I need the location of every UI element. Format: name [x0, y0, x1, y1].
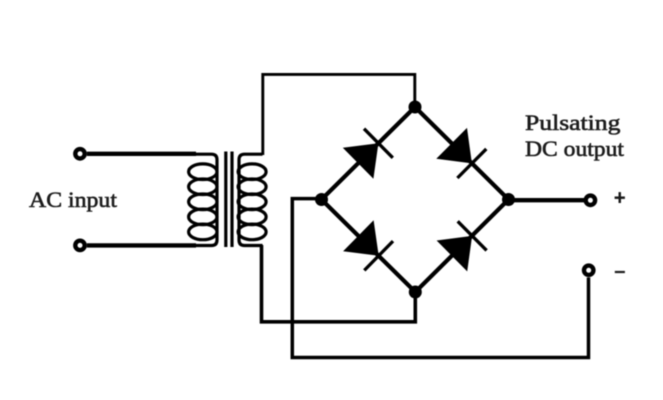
wire + output	[509, 198, 585, 202]
wire - return (left node around bottom to - terminal)	[292, 199, 588, 358]
node left	[315, 193, 328, 206]
diode D4 (bottom node to right node)	[437, 221, 487, 271]
terminal AC bottom	[75, 241, 84, 250]
node right	[502, 193, 515, 206]
wire secondary top to bridge top node	[263, 74, 415, 155]
AC input label	[29, 187, 117, 214]
terminal AC top	[75, 149, 84, 158]
transformer T1 primary winding	[189, 154, 217, 245]
wire AC top lead	[87, 152, 196, 156]
wire bridge side top-right	[415, 107, 509, 200]
transformer core	[224, 152, 227, 248]
wire bridge side left-top	[322, 107, 416, 200]
wire bridge side bottom-right	[415, 200, 508, 293]
Pulsating DC output label (line 1)	[525, 110, 620, 137]
node bottom	[409, 286, 422, 299]
wire secondary bottom to bridge bottom node	[262, 245, 416, 322]
node top	[409, 101, 422, 114]
terminal + output	[586, 196, 595, 205]
wire AC bottom lead	[87, 243, 196, 247]
transformer T1 secondary winding	[238, 154, 266, 245]
minus sign label	[615, 271, 625, 273]
diode D2 (top node to right node)	[436, 128, 486, 178]
wire bridge side left-bottom	[322, 200, 416, 293]
terminal - output	[584, 266, 593, 275]
diode D1 (left node to top node)	[343, 129, 393, 179]
Pulsating DC output label (line 2)	[525, 136, 624, 163]
plus sign label	[615, 192, 625, 203]
diode D3 (left node to bottom node)	[343, 220, 393, 270]
